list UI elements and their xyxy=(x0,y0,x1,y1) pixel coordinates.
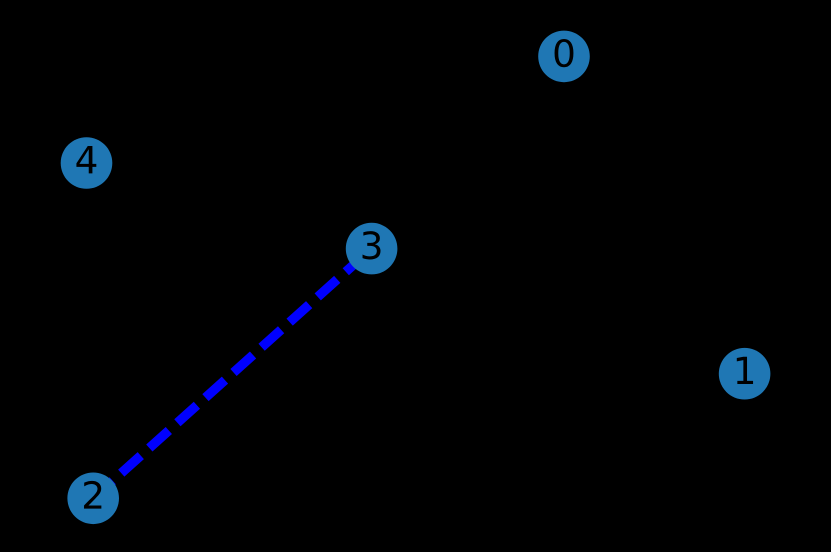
0 xyxy=(555,39,574,67)
node 2 circle xyxy=(67,473,119,525)
node 2 label xyxy=(84,481,101,509)
1 xyxy=(737,357,753,384)
3 xyxy=(363,231,381,259)
node 3 circle xyxy=(346,223,398,275)
node 4 circle xyxy=(61,137,113,189)
4 xyxy=(76,146,96,173)
node 0 circle xyxy=(538,31,590,83)
node 3 label xyxy=(363,231,381,259)
edge 2-3 (blue dashed) xyxy=(93,249,371,499)
2 xyxy=(84,481,101,509)
node 1 circle xyxy=(719,348,771,400)
node 0 label xyxy=(555,39,574,67)
node 1 label xyxy=(737,357,753,384)
node 4 label xyxy=(76,146,96,173)
